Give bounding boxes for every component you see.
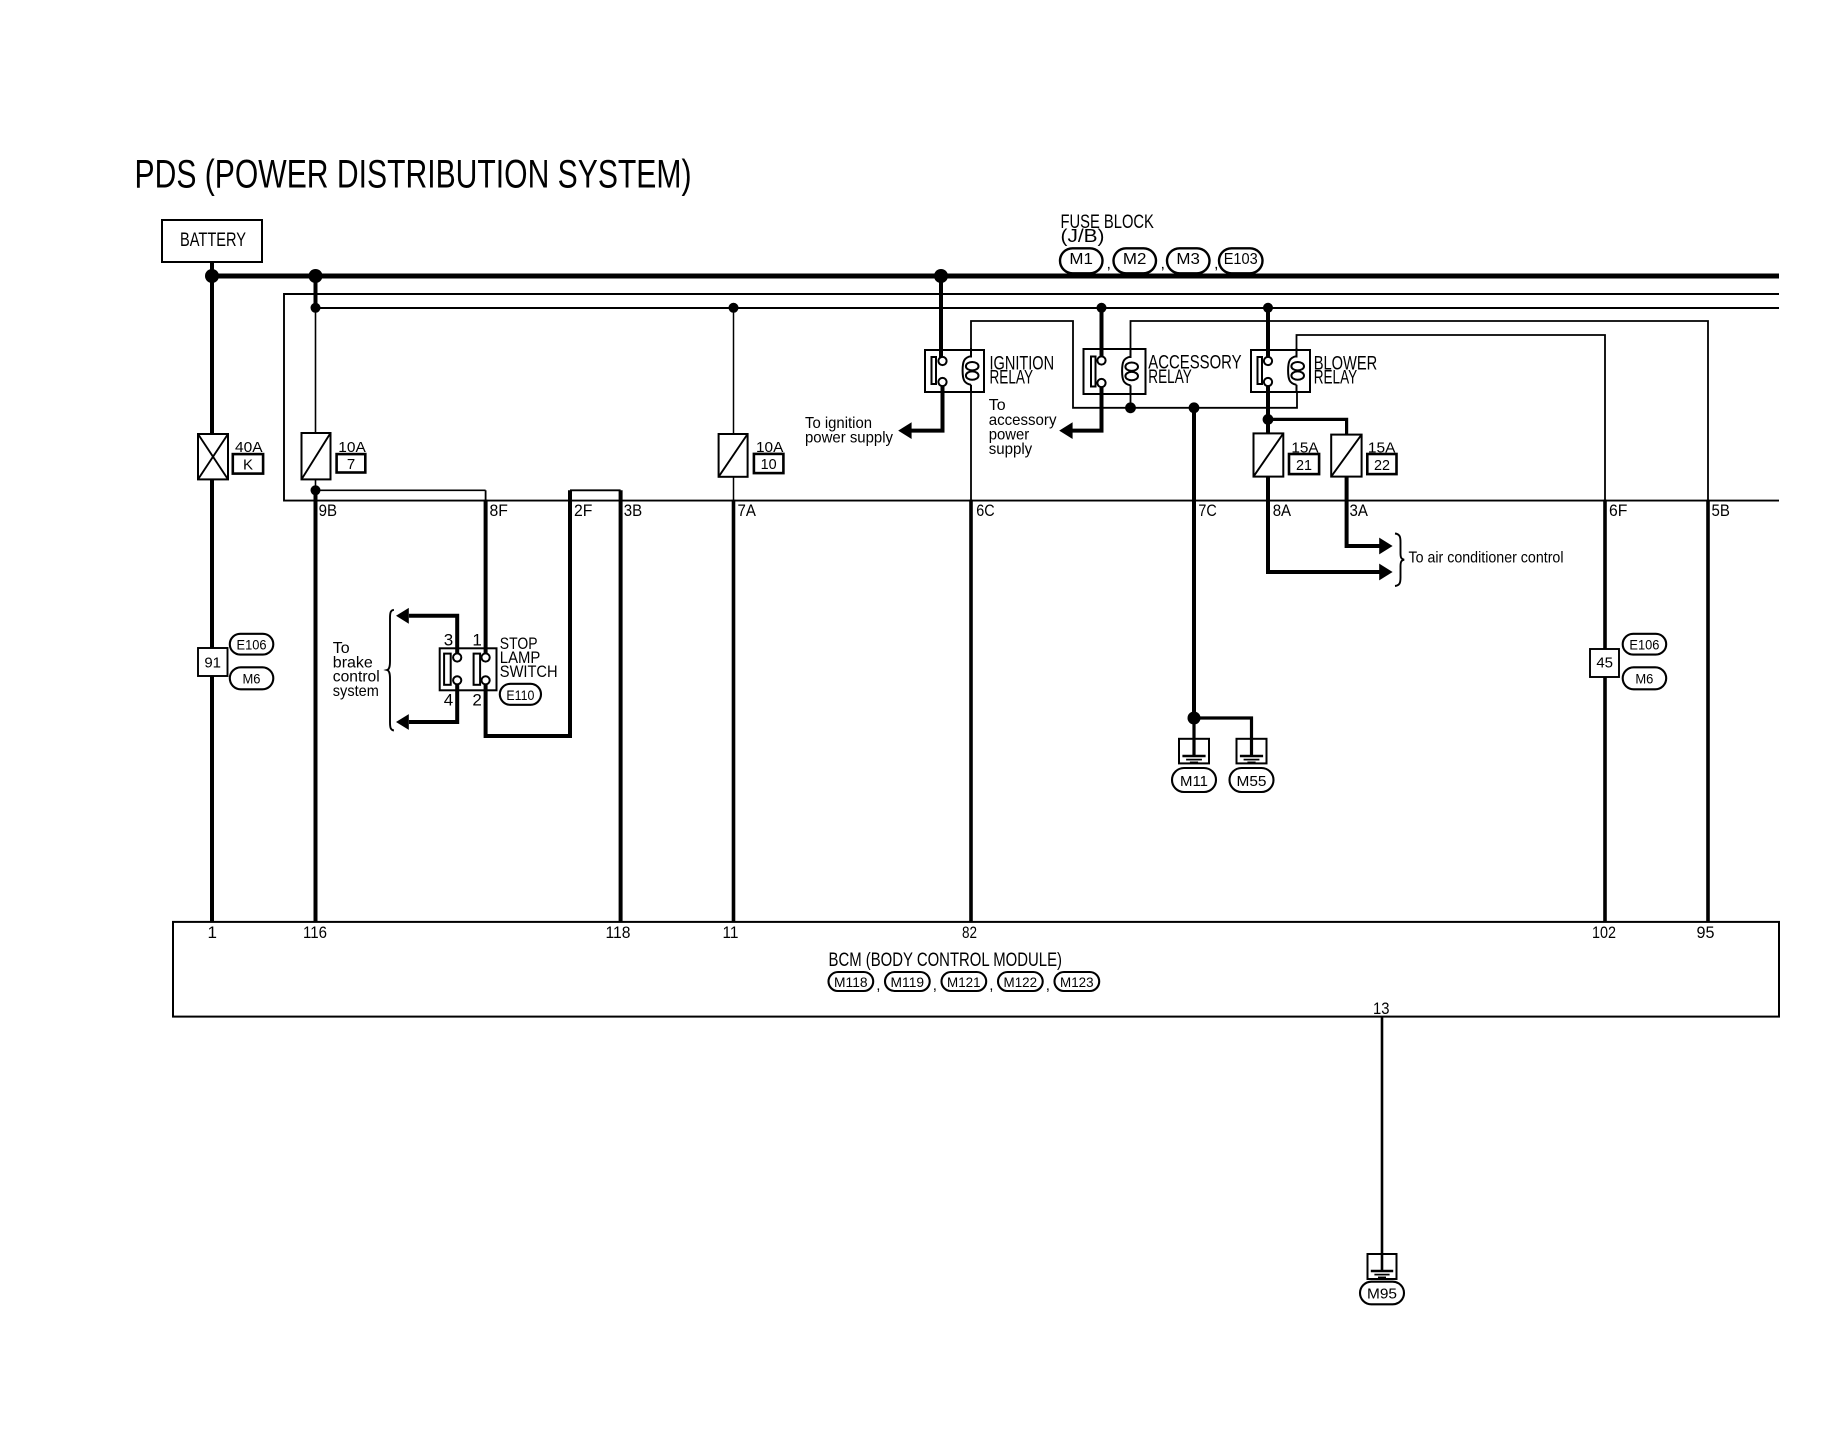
wire jumper 2F to 3B inside fuse block [570, 489, 621, 491]
wire junction to fuse 21 [1266, 419, 1270, 433]
wire accessory relay contact to arrow [1072, 387, 1102, 431]
connector M118 [829, 972, 881, 994]
svg-text:10: 10 [761, 456, 777, 473]
svg-text:1: 1 [208, 923, 217, 942]
fuse block J/B outline left edge [283, 293, 285, 502]
connector 45 [1590, 649, 1619, 677]
wire bus stub to internal bus at 9B column [314, 276, 318, 308]
svg-text:E110: E110 [506, 687, 534, 703]
svg-text:,: , [876, 977, 880, 994]
node ignition relay feed junction [934, 269, 948, 283]
svg-text:E106: E106 [1629, 637, 1659, 653]
fuse 10A 10 [719, 434, 748, 477]
connector M95 [1360, 1282, 1404, 1305]
svg-text:13: 13 [1373, 999, 1390, 1018]
wire junction to 8F tap [316, 489, 486, 491]
wire pin 4 to brake control arrow [409, 685, 457, 722]
wire fuse block internal bus [316, 307, 1780, 309]
svg-text:6C: 6C [976, 501, 994, 520]
svg-text:RELAY: RELAY [990, 368, 1034, 389]
svg-text:E106: E106 [237, 637, 267, 653]
node blower contact junction [1263, 414, 1274, 425]
fuse number box 7 [337, 454, 366, 473]
ground M11 [1179, 739, 1209, 764]
wire ground junction into M11 [1192, 718, 1195, 756]
svg-text:power supply: power supply [805, 430, 893, 447]
connector M3 [1167, 248, 1218, 273]
connector M2 [1114, 248, 1165, 273]
node internal bus tap fuse 10 [729, 303, 739, 313]
relay accessory [1084, 349, 1146, 394]
ground M95 [1368, 1254, 1397, 1279]
svg-text:2: 2 [472, 691, 481, 710]
svg-text:102: 102 [1592, 923, 1616, 942]
svg-text:91: 91 [204, 655, 221, 672]
svg-text:M123: M123 [1060, 974, 1094, 990]
fuse 15A 22 [1331, 435, 1361, 477]
svg-text:,: , [933, 977, 937, 994]
svg-text:118: 118 [606, 923, 631, 942]
svg-text:,: , [1214, 256, 1218, 273]
wire internal bus to fuse 10 [733, 308, 735, 434]
wire 7A to BCM pin 11 [732, 500, 736, 922]
wire accessory coil top to 5B [1131, 321, 1709, 501]
connector M123 [1055, 972, 1100, 991]
wire 7C to ground junction [1192, 408, 1196, 718]
connector 91 [198, 648, 228, 676]
svg-text:3A: 3A [1350, 501, 1369, 520]
wire main battery bus [209, 274, 1779, 279]
wire 3A to air conditioner arrow [1347, 477, 1380, 546]
svg-text:M1: M1 [1069, 251, 1093, 268]
svg-text:116: 116 [303, 923, 327, 942]
fuse number box 21 [1289, 454, 1319, 474]
arrow 8A to air conditioner control [1379, 564, 1392, 581]
svg-text:M119: M119 [891, 974, 925, 990]
connector M119 [885, 972, 937, 994]
svg-text:7: 7 [347, 456, 355, 473]
svg-text:SWITCH: SWITCH [500, 662, 558, 681]
svg-text:,: , [1161, 256, 1165, 273]
relay blower [1251, 348, 1310, 392]
connector M122 [998, 972, 1050, 994]
svg-text:(J/B): (J/B) [1061, 226, 1105, 246]
svg-text:RELAY: RELAY [1148, 367, 1192, 388]
svg-text:E103: E103 [1224, 251, 1258, 268]
svg-text:7C: 7C [1198, 501, 1216, 520]
node battery junction [205, 269, 219, 283]
svg-text:4: 4 [444, 691, 453, 710]
node coil line accessory tap [1125, 402, 1136, 413]
label To brake control system [333, 640, 380, 700]
wire 8F to stop lamp switch pin 1 [485, 490, 487, 501]
svg-text:8A: 8A [1273, 501, 1292, 520]
wire ground junction to M55 drop [1194, 718, 1252, 756]
svg-text:1: 1 [472, 631, 481, 650]
arrow 3A to air conditioner control [1379, 538, 1392, 555]
node ground junction [1188, 712, 1201, 725]
svg-text:45: 45 [1596, 655, 1613, 672]
node coil line 7C tap [1189, 402, 1200, 413]
fuse block J/B outline bottom edge [284, 500, 1779, 502]
svg-text:M6: M6 [1635, 671, 1653, 687]
battery B1 [162, 220, 262, 262]
svg-text:2F: 2F [574, 501, 592, 520]
brace brake control system [387, 610, 394, 731]
wire fuse 10 to 7A [733, 477, 735, 501]
connector E106 right [1623, 634, 1667, 655]
connector M121 [942, 972, 994, 994]
fuse number box 22 [1367, 454, 1396, 474]
label IGNITION RELAY [990, 353, 1055, 388]
relay ignition [925, 348, 984, 392]
node fuse 7 output junction [311, 485, 321, 495]
svg-text:,: , [1046, 977, 1050, 994]
wire internal bus to fuse 7 [315, 308, 317, 433]
connector M6 left [230, 667, 273, 689]
fusible link 40A K [198, 434, 228, 479]
wire fuse 7 to junction [315, 479, 317, 490]
svg-text:,: , [1107, 256, 1111, 273]
svg-text:7A: 7A [738, 501, 757, 520]
arrow to accessory power supply [1059, 422, 1072, 439]
wire 40A to BCM pin 1 [210, 479, 214, 922]
pin 1 stop lamp switch [482, 653, 490, 661]
fuse block J/B outline top edge [284, 293, 1779, 295]
ground M55 [1237, 739, 1267, 764]
brace air conditioner control [1395, 534, 1404, 587]
svg-text:supply: supply [989, 441, 1032, 458]
pin 2 stop lamp switch [482, 676, 490, 684]
wire accessory coil bottom to common coil line [1130, 394, 1132, 408]
svg-text:,: , [989, 977, 993, 994]
svg-text:21: 21 [1296, 457, 1312, 474]
svg-text:11: 11 [723, 923, 739, 942]
wire ignition coil to 6C [970, 392, 972, 501]
svg-text:M6: M6 [243, 671, 261, 687]
svg-text:M2: M2 [1123, 251, 1147, 268]
pin 4 stop lamp switch [453, 676, 461, 684]
svg-text:M55: M55 [1237, 773, 1267, 790]
svg-text:M95: M95 [1367, 1286, 1397, 1303]
wire pin 2 to 2F [486, 490, 570, 736]
svg-text:6F: 6F [1609, 501, 1627, 520]
switch stop lamp E110 [440, 648, 497, 690]
fuse number box 10 [754, 454, 784, 473]
wire internal bus to accessory relay [1100, 308, 1104, 360]
wire junction to fuse 22 [1268, 419, 1347, 434]
svg-text:M3: M3 [1176, 251, 1200, 268]
svg-text:3B: 3B [624, 501, 642, 520]
connector M55 [1230, 768, 1274, 792]
fuse 15A 21 [1254, 433, 1284, 476]
wire blower relay contact down [1266, 386, 1270, 419]
svg-text:5B: 5B [1712, 501, 1730, 520]
label STOP LAMP SWITCH [500, 634, 558, 681]
connector M6 right [1623, 667, 1667, 689]
wire 6F to BCM pin 102 [1603, 500, 1607, 922]
wire internal bus to blower relay [1266, 308, 1270, 360]
connector E106 left [230, 634, 273, 655]
wire ignition coil loop to relay feed line [971, 321, 1297, 408]
node internal bus tap fuse 7 [311, 303, 321, 313]
connector M11 [1172, 768, 1216, 792]
wire pin 3 to brake control arrow [409, 616, 457, 653]
wire ignition relay contact to arrow [911, 386, 943, 431]
svg-text:M118: M118 [834, 974, 868, 990]
wire 9B to BCM pin 116 [314, 490, 318, 922]
wire 5B to BCM pin 95 [1706, 500, 1710, 922]
svg-text:8F: 8F [490, 501, 508, 520]
svg-text:BATTERY: BATTERY [180, 230, 246, 251]
svg-text:system: system [333, 683, 379, 700]
label To accessory power supply [989, 397, 1057, 458]
connector M1 [1060, 248, 1111, 273]
module BCM body control module box [173, 922, 1779, 1017]
svg-text:M121: M121 [947, 974, 981, 990]
label ACCESSORY RELAY [1148, 353, 1242, 388]
node fuse7 feed junction [309, 269, 323, 283]
wire BCM pin 13 to ground M95 [1381, 1017, 1384, 1271]
svg-text:K: K [243, 456, 253, 473]
wire 8A to air conditioner arrow [1268, 477, 1380, 572]
svg-text:3: 3 [444, 631, 453, 650]
arrow pin 4 to brake control system [396, 714, 409, 730]
fuse number box K [233, 454, 263, 474]
svg-text:82: 82 [962, 923, 977, 942]
wire 6C to BCM pin 82 [969, 500, 973, 922]
label FUSE BLOCK (J/B) [1061, 212, 1155, 246]
svg-text:RELAY: RELAY [1314, 368, 1358, 389]
arrow pin 3 to brake control system [396, 608, 409, 624]
wire bus to fusible link 40A [210, 276, 214, 434]
wire battery to bus [210, 261, 214, 276]
node internal bus tap accessory relay [1097, 303, 1107, 313]
svg-text:PDS (POWER DISTRIBUTION SYSTEM: PDS (POWER DISTRIBUTION SYSTEM) [135, 153, 692, 197]
pin 3 stop lamp switch [453, 653, 461, 661]
svg-text:22: 22 [1374, 457, 1390, 474]
wire bus to ignition relay [939, 276, 943, 360]
svg-text:M11: M11 [1180, 773, 1208, 790]
svg-text:To air conditioner control: To air conditioner control [1409, 550, 1564, 567]
label To ignition power supply [805, 415, 893, 446]
label BLOWER RELAY [1314, 353, 1378, 388]
svg-text:9B: 9B [319, 501, 337, 520]
connector E110 [500, 684, 541, 705]
connector E103 [1219, 248, 1263, 273]
svg-text:BCM (BODY CONTROL MODULE): BCM (BODY CONTROL MODULE) [829, 950, 1063, 971]
wire blower coil top to 6F [1297, 335, 1606, 501]
svg-text:M122: M122 [1004, 974, 1038, 990]
svg-text:95: 95 [1697, 923, 1715, 942]
fuse 10A 7 [302, 433, 331, 479]
wire 3B to BCM pin 118 [619, 490, 623, 922]
node internal bus tap blower relay [1263, 303, 1273, 313]
arrow to ignition power supply [898, 422, 911, 439]
